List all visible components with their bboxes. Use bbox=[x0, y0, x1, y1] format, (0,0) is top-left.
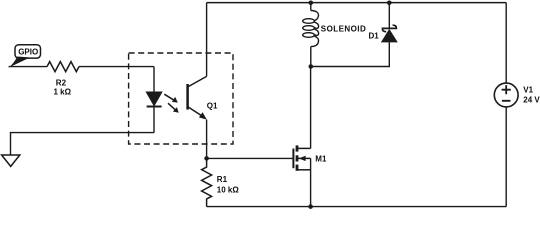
phototransistor Q1 bbox=[188, 76, 207, 119]
svg-text:D1: D1 bbox=[369, 32, 380, 41]
svg-text:Q1: Q1 bbox=[207, 102, 218, 111]
wire gate node to M1 gate bbox=[207, 157, 294, 159]
node solenoid bottom bbox=[309, 64, 314, 69]
node solenoid top bbox=[309, 1, 314, 6]
node D1 top bbox=[387, 1, 392, 6]
transistor M1 (NMOS) bbox=[293, 145, 310, 170]
ground bbox=[2, 155, 20, 166]
wire right rail bottom bbox=[505, 107, 507, 207]
svg-text:R2: R2 bbox=[56, 79, 67, 88]
light arrow 1 bbox=[164, 94, 178, 102]
wire D1 cathode to top rail bbox=[388, 3, 390, 29]
wire LED cathode lead bbox=[153, 107, 155, 133]
wire collector to top rail bbox=[206, 3, 208, 77]
GPIO flag bbox=[9, 45, 41, 68]
node source bottom bbox=[308, 204, 313, 209]
inductor SOLENOID bbox=[303, 11, 319, 47]
svg-text:10 kΩ: 10 kΩ bbox=[217, 186, 240, 195]
resistor R1 bbox=[202, 158, 212, 206]
wire top rail to solenoid bbox=[310, 3, 312, 11]
wire drain to solenoid node bbox=[310, 67, 312, 149]
node gate junction bbox=[204, 156, 209, 161]
svg-text:R1: R1 bbox=[217, 175, 228, 184]
optocoupler dashed box bbox=[129, 53, 233, 144]
wire top rail bbox=[207, 2, 507, 4]
wire right rail top bbox=[505, 3, 507, 84]
wire R2 to LED anode bbox=[79, 66, 154, 68]
resistor R2 bbox=[47, 62, 79, 72]
svg-text:1 kΩ: 1 kΩ bbox=[54, 88, 72, 97]
light arrow 2 bbox=[168, 103, 179, 113]
svg-text:24 V: 24 V bbox=[523, 95, 540, 104]
wire source to bottom rail bbox=[310, 158, 312, 206]
diode D1 (Schottky) bbox=[382, 25, 397, 42]
svg-text:M1: M1 bbox=[315, 154, 327, 163]
wire LED anode lead bbox=[153, 67, 155, 92]
source V1 bbox=[494, 83, 518, 107]
svg-text:V1: V1 bbox=[523, 85, 533, 94]
wire solenoid to drain node bbox=[310, 47, 312, 67]
wire emitter to gate node bbox=[206, 120, 208, 159]
wire LED return to ground bbox=[11, 133, 155, 155]
wire GPIO to R2 bbox=[9, 66, 47, 68]
svg-text:SOLENOID: SOLENOID bbox=[321, 25, 366, 34]
LED of optocoupler (diode) bbox=[146, 92, 162, 107]
svg-text:GPIO: GPIO bbox=[18, 48, 38, 57]
wire bottom rail bbox=[207, 206, 507, 208]
wire flyback branch bbox=[311, 42, 390, 67]
